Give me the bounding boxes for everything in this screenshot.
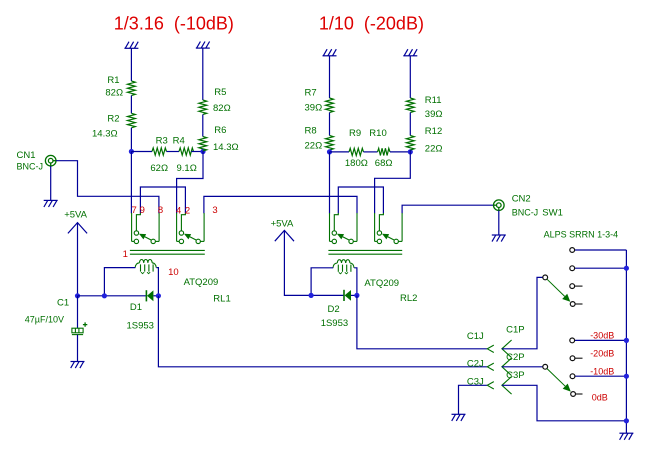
wire SW1 -10dB to bus (575, 375, 627, 377)
svg-text:39Ω: 39Ω (425, 109, 443, 120)
junction bus -10dB (624, 374, 629, 379)
resistor R10 (378, 148, 391, 155)
wire C3J to ground (459, 385, 488, 414)
junction D1 cathode node (156, 293, 161, 298)
wire node D to RL2 pin4 (375, 152, 411, 214)
svg-text:R8: R8 (305, 126, 317, 137)
relay RL1 separator lines (130, 249, 205, 251)
power arrow +5VA no.1 (68, 223, 87, 234)
svg-text:-20dB: -20dB (590, 349, 614, 359)
resistor R8 (326, 136, 334, 151)
svg-text:14.3Ω: 14.3Ω (213, 142, 239, 153)
junction coil RL1 left node (102, 293, 107, 298)
wire coil RL2 left lead (311, 268, 333, 296)
wire R12 to node D (409, 150, 411, 152)
wire ground G1 to R1 (130, 48, 132, 81)
connector CN1 BNC jack (45, 155, 56, 166)
resistor R7 (326, 98, 334, 113)
junction node B (200, 149, 205, 154)
wire RL2 pin3 to CN2 (402, 205, 493, 213)
switch SW1 pole1 contact 2 (570, 266, 575, 271)
svg-text:39Ω: 39Ω (305, 103, 323, 114)
svg-text:22Ω: 22Ω (425, 144, 443, 155)
svg-text:22Ω: 22Ω (305, 141, 323, 152)
svg-text:RL2: RL2 (400, 293, 417, 304)
ground G4 top of R11 (403, 49, 417, 56)
wire +5VA no.1 stem (77, 223, 79, 296)
wire CN1 to RL1 pin8 (56, 161, 159, 214)
wire node C to R9 (330, 151, 350, 153)
wire R6 to node B (202, 150, 204, 153)
svg-text:ATQ209: ATQ209 (184, 277, 219, 288)
svg-text:180Ω: 180Ω (345, 158, 368, 169)
switch SW1 pole2 contact -30dB (570, 338, 575, 343)
svg-text:82Ω: 82Ω (213, 103, 231, 114)
ground G9 under CN2 (492, 235, 506, 242)
relay RL1 coil (135, 260, 156, 274)
connector C1P (502, 340, 512, 358)
resistor R4 (179, 148, 194, 155)
switch SW1 pole1 contact 1 (570, 248, 575, 253)
svg-text:1S953: 1S953 (127, 321, 154, 332)
wire R7 to R8 (329, 113, 331, 136)
svg-text:ATQ209: ATQ209 (364, 278, 399, 289)
svg-text:C1P: C1P (506, 325, 524, 336)
resistor R3 (152, 148, 167, 155)
svg-text:1/10 (-20dB): 1/10 (-20dB) (319, 14, 424, 34)
junction node D (408, 149, 413, 154)
svg-text:9.1Ω: 9.1Ω (177, 163, 197, 174)
svg-text:D2: D2 (328, 304, 340, 315)
svg-text:R11: R11 (425, 95, 442, 106)
svg-text:7: 7 (132, 205, 137, 216)
junction node C (327, 149, 332, 154)
wire C2P to SW1 wiper2 (502, 366, 543, 368)
svg-text:R6: R6 (214, 125, 226, 136)
ground G3 top of R7 (323, 49, 337, 56)
connector C3P (502, 377, 512, 395)
junction bus -30dB (624, 338, 629, 343)
svg-text:R12: R12 (425, 126, 442, 137)
power arrow +5VA no.2 (275, 230, 294, 241)
wire R11 to R12 (409, 113, 411, 136)
junction bus contact2 (624, 266, 629, 271)
svg-text:R4: R4 (173, 136, 185, 147)
svg-text:RL1: RL1 (213, 294, 230, 305)
switch SW1 pole1 contact 4 (570, 302, 575, 307)
svg-text:10: 10 (168, 267, 179, 278)
svg-text:C3P: C3P (506, 370, 524, 381)
wire coil RL1 right lead (156, 268, 158, 296)
resistor R11 (406, 98, 414, 113)
svg-text:2: 2 (185, 206, 190, 217)
wire D2 node to C1J (357, 295, 487, 348)
svg-text:-10dB: -10dB (590, 367, 614, 377)
wire RL1 pin3 to RL2 pin8 (204, 196, 357, 213)
svg-text:-30dB: -30dB (590, 331, 614, 341)
svg-text:+5VA: +5VA (64, 210, 87, 221)
svg-text:1: 1 (123, 249, 128, 260)
switch SW1 pole2 contact 0dB (571, 392, 576, 397)
wire CN2 shield to ground (498, 211, 500, 236)
wire C1 branch (77, 296, 79, 328)
wire node A to RL1 pin7 (130, 152, 132, 214)
svg-text:D1: D1 (130, 302, 142, 313)
wire coil RL1 left lead (104, 268, 135, 296)
diode D1 1S953 (145, 290, 147, 301)
svg-text:C2J: C2J (467, 359, 484, 370)
wire coil RL2 right lead (354, 268, 357, 296)
svg-text:R1: R1 (107, 75, 119, 86)
svg-text:68Ω: 68Ω (375, 158, 393, 169)
relay RL1 contact pole A (132, 213, 160, 244)
wire node A to R3 (131, 151, 152, 153)
svg-text:BNC-J: BNC-J (512, 208, 539, 218)
wire D2 to node (351, 294, 357, 296)
resistor R9 (349, 148, 364, 155)
svg-text:4: 4 (176, 206, 181, 217)
resistor R5 (199, 100, 207, 115)
wire R8 to node C (329, 150, 331, 152)
ground G5 under CN1 (44, 200, 58, 207)
connector CN2 BNC jack (494, 200, 505, 211)
switch SW1 pole2 contact -10dB (570, 374, 575, 379)
switch SW1 wiper arrow pole 2 (547, 369, 565, 387)
resistor R12 (406, 136, 414, 151)
switch SW1 pole2 contact -20dB (570, 356, 575, 361)
wire R1 to R2 (130, 96, 132, 114)
svg-text:82Ω: 82Ω (105, 88, 123, 99)
svg-text:C1J: C1J (467, 331, 484, 342)
relay RL2 coil (333, 260, 354, 274)
wire R2 to node A (130, 128, 132, 152)
junction +5VA C1 node (75, 293, 80, 298)
ground G8 bus bottom (619, 433, 633, 440)
wire C1 to ground (77, 335, 79, 362)
wire ground G3 to R7 (329, 56, 331, 98)
svg-text:BNC-J: BNC-J (17, 162, 44, 172)
relay RL2 contact pole B (375, 213, 403, 244)
svg-text:8: 8 (158, 205, 163, 216)
wire C3P to bus (502, 385, 627, 421)
svg-text:62Ω: 62Ω (150, 163, 168, 174)
switch SW1 pole1 contact 3 (570, 284, 575, 289)
ground G7 on C3J (452, 414, 466, 421)
resistor R2 (128, 113, 136, 128)
junction bus C3P (624, 418, 629, 423)
relay RL2 contact pole A (330, 213, 358, 244)
diode D2 1S953 (343, 290, 345, 301)
ground G1 top of R1 (124, 42, 138, 49)
wire ground G2 to R5 (202, 48, 204, 100)
capacitor C1 47uF/10V electrolytic (72, 322, 87, 334)
wire D1 node to C2J (158, 296, 487, 367)
svg-text:R9: R9 (349, 128, 361, 139)
wire R10 to node D (390, 151, 410, 153)
wire +5VA no.2 stem (284, 230, 344, 295)
wire R4 to node B (191, 151, 203, 153)
switch SW1 wiper arrow pole 1 (547, 279, 565, 296)
svg-text:R5: R5 (214, 87, 226, 98)
svg-text:R7: R7 (305, 88, 317, 99)
ground G6 under C1 (71, 362, 85, 369)
wire node C to RL2 pin7 (329, 152, 331, 214)
wire C1P to SW1 wiper1 (502, 277, 543, 348)
junction coil RL2 left node (309, 293, 314, 298)
svg-text:14.3Ω: 14.3Ω (92, 129, 118, 140)
svg-text:CN2: CN2 (512, 194, 531, 205)
wire CN1 shield to ground (50, 166, 52, 200)
wire R5 to R6 (202, 115, 204, 137)
wire ground G4 to R11 (409, 56, 411, 98)
wire RL2 pin9 to pin2 rail (338, 187, 383, 213)
wire RL1 pin9 to pin2 rail (140, 187, 185, 213)
svg-text:R3: R3 (156, 136, 168, 147)
wire D1 to node (154, 295, 159, 297)
svg-text:C2P: C2P (506, 352, 524, 363)
connector C2J (487, 363, 494, 370)
wire SW1 contact2 to bus (575, 267, 627, 269)
svg-text:0dB: 0dB (592, 393, 608, 403)
connector C3J (487, 382, 494, 389)
svg-text:3: 3 (212, 205, 217, 216)
junction node A (129, 149, 134, 154)
svg-text:C3J: C3J (467, 377, 484, 388)
switch SW1 wiper 2 (543, 364, 548, 369)
switch SW1 wiper 1 (543, 275, 548, 280)
svg-text:ALPS SRRN 1-3-4: ALPS SRRN 1-3-4 (544, 230, 619, 240)
svg-text:47µF/10V: 47µF/10V (25, 315, 64, 325)
svg-text:R10: R10 (369, 128, 386, 139)
relay RL1 contact pole B (177, 213, 205, 244)
svg-text:SW1: SW1 (542, 208, 563, 219)
svg-text:1S953: 1S953 (321, 318, 348, 329)
svg-text:CN1: CN1 (17, 150, 36, 161)
wire SW1 -30dB to bus (575, 339, 627, 341)
resistor R6 (199, 137, 207, 152)
svg-text:C1: C1 (57, 298, 69, 309)
svg-text:1/3.16 (-10dB): 1/3.16 (-10dB) (114, 14, 234, 34)
junction D2 cathode node (354, 293, 359, 298)
wire SW1 contact1 to bus (575, 249, 627, 251)
relay RL2 separator lines (328, 249, 402, 251)
ground G2 top of R5 (196, 42, 210, 49)
connector C1J (487, 345, 494, 352)
svg-text:+5VA: +5VA (271, 219, 294, 230)
wire node B to RL1 pin4 (177, 152, 203, 214)
resistor R1 (128, 81, 136, 96)
wire R9 to R10 (364, 151, 378, 153)
wire R3 to R4 (167, 151, 180, 153)
wire SW1 ground bus (625, 250, 627, 433)
svg-text:R2: R2 (107, 114, 119, 125)
wire +5VA node to D1 (78, 295, 147, 297)
svg-text:9: 9 (140, 205, 145, 216)
connector C2P (502, 358, 512, 376)
